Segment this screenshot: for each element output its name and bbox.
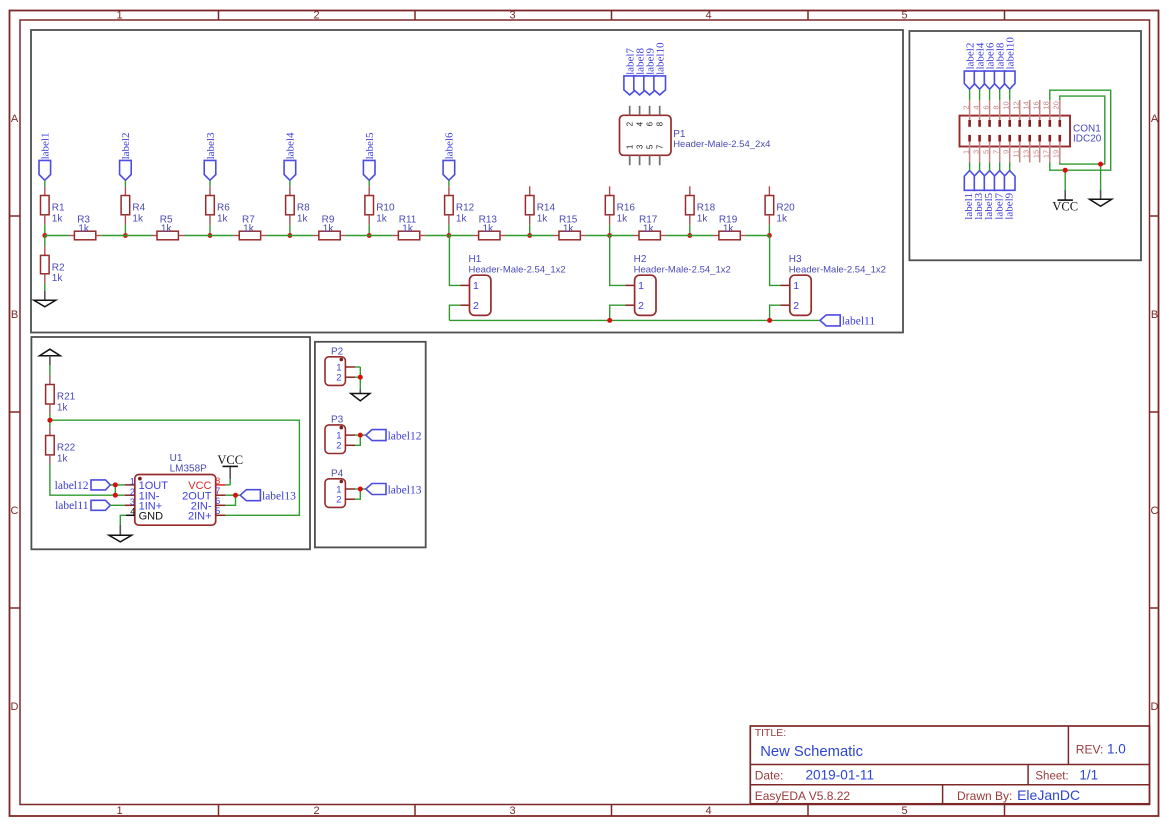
svg-text:R1: R1 (52, 202, 65, 213)
wire (530, 235, 554, 237)
wire (184, 235, 210, 237)
svg-text:New Schematic: New Schematic (760, 744, 863, 760)
net label flag label7 (CON1 bottom) (993, 171, 1005, 220)
wire VCC loop (pin18 to pin17) (1050, 90, 1111, 170)
svg-text:label9: label9 (1003, 192, 1015, 219)
wire (506, 235, 530, 237)
svg-text:17: 17 (1042, 150, 1051, 158)
wire (690, 235, 714, 237)
wire (114, 485, 116, 495)
pin stub R18 top (689, 186, 691, 195)
wire (266, 235, 290, 237)
svg-text:4: 4 (705, 805, 711, 817)
svg-text:label4: label4 (285, 132, 297, 159)
wire (44, 236, 46, 247)
junction CON1 VCC tap (1063, 168, 1068, 173)
wire (369, 235, 393, 237)
wire H3 pin2 down (770, 305, 781, 320)
resistor R1 (41, 186, 66, 225)
svg-text:LM358P: LM358P (170, 463, 208, 474)
wire (209, 225, 211, 236)
wire (355, 489, 360, 499)
svg-text:1k: 1k (217, 213, 229, 224)
CON1 pins bottom (970, 135, 1060, 163)
svg-text:3: 3 (509, 9, 515, 21)
svg-text:14: 14 (1021, 101, 1030, 109)
svg-text:2: 2 (313, 805, 319, 817)
svg-text:R10: R10 (376, 202, 395, 213)
resistor R19 (713, 215, 745, 240)
svg-text:A: A (1151, 113, 1159, 125)
svg-text:1k: 1k (52, 213, 64, 224)
wire (110, 484, 125, 486)
svg-text:1k: 1k (297, 213, 309, 224)
power flag VCC (op-amp) (217, 453, 243, 485)
svg-text:2: 2 (793, 300, 799, 312)
frame row ticks right (1150, 216, 1160, 608)
svg-text:1k: 1k (776, 213, 788, 224)
svg-text:C: C (1151, 505, 1159, 517)
svg-text:TITLE:: TITLE: (755, 727, 787, 739)
resistor R3 (69, 215, 101, 240)
wire (1009, 163, 1011, 171)
svg-text:Date:: Date: (755, 769, 784, 783)
svg-text:5: 5 (215, 506, 220, 516)
net label flag label1 (39, 133, 52, 181)
junction col 10 (767, 233, 772, 238)
svg-text:3: 3 (130, 497, 135, 507)
wire (768, 225, 770, 236)
svg-text:9: 9 (1001, 150, 1010, 154)
junction H3 bottom (767, 318, 772, 323)
svg-text:2: 2 (961, 105, 970, 109)
svg-text:1k: 1k (57, 454, 69, 465)
wire (44, 225, 46, 236)
title block table (750, 726, 1149, 804)
wire (368, 225, 370, 236)
wire (124, 225, 126, 236)
wire H2 pin2 down (610, 305, 626, 320)
svg-text:1k: 1k (402, 223, 414, 234)
wire (115, 494, 125, 496)
svg-text:label12: label12 (55, 480, 89, 492)
resistor R18 (686, 196, 716, 225)
svg-text:2019-01-11: 2019-01-11 (806, 768, 875, 783)
svg-text:REV:: REV: (1076, 743, 1104, 757)
svg-text:6: 6 (646, 121, 655, 126)
svg-text:1: 1 (116, 805, 122, 817)
svg-text:3: 3 (509, 805, 515, 817)
junction col 7 (527, 233, 532, 238)
ground symbol (op-amp) (109, 525, 132, 542)
junction 1IN- (113, 493, 118, 498)
svg-text:label5: label5 (364, 132, 376, 159)
svg-text:1k: 1k (723, 223, 735, 234)
power flag arrow (top) (40, 349, 61, 365)
svg-text:Header-Male-2.54_2x4: Header-Male-2.54_2x4 (673, 139, 770, 150)
svg-text:1k: 1k (243, 223, 255, 234)
svg-text:7: 7 (656, 144, 665, 149)
wire (989, 163, 991, 171)
P2-P4 block border (315, 342, 426, 548)
wire R22 to 1IN- (50, 464, 115, 495)
svg-text:20: 20 (1052, 101, 1061, 109)
svg-text:R20: R20 (776, 202, 795, 213)
wire (49, 365, 51, 376)
wire (44, 180, 46, 186)
svg-text:R14: R14 (537, 202, 556, 213)
resistor R16 (605, 196, 635, 225)
ground symbol (CON1) (1090, 190, 1112, 206)
svg-text:2: 2 (336, 373, 341, 384)
wire H2 pin1 to bus (610, 236, 626, 286)
svg-text:label11: label11 (842, 316, 876, 328)
net label flag label2 (CON1 top) (964, 43, 976, 90)
wire (44, 284, 46, 292)
frame column numbers bottom (116, 805, 907, 817)
wire (355, 435, 360, 445)
svg-text:1k: 1k (52, 273, 64, 284)
svg-text:1/1: 1/1 (1079, 768, 1098, 783)
wire (969, 163, 971, 171)
wire (1100, 164, 1102, 190)
wire (110, 504, 125, 506)
svg-text:1k: 1k (697, 213, 709, 224)
wire (368, 180, 370, 186)
svg-text:1: 1 (961, 150, 970, 154)
svg-text:label11: label11 (55, 500, 89, 512)
svg-text:D: D (11, 701, 19, 713)
op-amp U1 LM358P (125, 453, 226, 525)
wire (225, 494, 235, 496)
svg-text:Sheet:: Sheet: (1035, 771, 1068, 783)
svg-text:2: 2 (130, 487, 135, 497)
svg-text:1k: 1k (376, 213, 388, 224)
wire (1009, 89, 1011, 100)
svg-text:1: 1 (116, 9, 122, 21)
wire (979, 163, 981, 171)
frame row letters right (1151, 113, 1159, 713)
net label flag label6 (CON1 top) (984, 42, 996, 89)
resistor R7 (234, 215, 266, 240)
junction P3 (358, 433, 363, 438)
resistor R15 (553, 215, 585, 240)
svg-text:R12: R12 (456, 202, 475, 213)
svg-text:4: 4 (971, 105, 980, 109)
svg-text:1k: 1k (57, 402, 69, 413)
wire (969, 89, 971, 100)
CON1 block border (909, 31, 1141, 260)
net label flag label3 (204, 132, 217, 180)
wire (355, 488, 360, 490)
svg-text:5: 5 (901, 805, 907, 817)
junction CON1 GND tap (1098, 162, 1103, 167)
resistor R22 (46, 420, 76, 464)
wire (101, 235, 125, 237)
svg-text:label13: label13 (388, 484, 422, 496)
junction P2 (358, 375, 363, 380)
junction col 8 (607, 233, 612, 238)
wire (49, 414, 51, 421)
resistor R12 (445, 186, 475, 225)
connector P4 1x2 (325, 469, 355, 508)
wire (209, 180, 211, 186)
svg-text:5: 5 (901, 9, 907, 21)
resistor R6 (206, 186, 231, 225)
frame column numbers top (116, 9, 907, 21)
wire (225, 484, 230, 486)
svg-text:label12: label12 (388, 430, 422, 442)
wire (425, 235, 449, 237)
svg-text:5: 5 (646, 144, 655, 149)
svg-text:1k: 1k (78, 223, 90, 234)
wire (449, 235, 473, 237)
svg-text:C: C (11, 505, 19, 517)
wire (359, 377, 361, 389)
op-amp block border (31, 337, 310, 549)
wire H1 pin1 to bus (449, 236, 460, 286)
svg-text:EasyEDA V5.8.22: EasyEDA V5.8.22 (755, 789, 851, 803)
net label flag label2 (120, 133, 133, 181)
svg-text:12: 12 (1011, 101, 1020, 109)
net label flag label9 (644, 48, 657, 95)
net label flag label11 (main block) (820, 315, 875, 328)
wire GND loop (pin20 to pin19) (1060, 96, 1105, 164)
svg-text:VCC: VCC (217, 453, 243, 467)
svg-text:2: 2 (473, 300, 479, 312)
svg-text:R6: R6 (217, 202, 230, 213)
svg-text:6: 6 (981, 105, 990, 109)
svg-text:1k: 1k (161, 223, 173, 234)
junction col 2 (123, 233, 128, 238)
wire (666, 235, 690, 237)
wire GND pin4 (120, 515, 126, 525)
svg-text:3: 3 (636, 144, 645, 149)
resistor R21 (46, 376, 76, 414)
frame column ticks top (219, 11, 1005, 21)
svg-text:19: 19 (1052, 150, 1061, 158)
junction col 4 (288, 233, 293, 238)
CON1 pin numbers top (961, 101, 1060, 109)
svg-text:1: 1 (793, 280, 799, 292)
ground symbol (R2) (34, 291, 56, 307)
connector P2 1x2 (325, 347, 355, 386)
svg-text:5: 5 (981, 150, 990, 154)
svg-text:1: 1 (130, 477, 135, 487)
wire (45, 235, 69, 237)
svg-text:4: 4 (705, 9, 711, 21)
svg-text:8: 8 (656, 121, 665, 126)
svg-text:label10: label10 (1005, 37, 1017, 70)
svg-text:1k: 1k (456, 213, 468, 224)
svg-text:4: 4 (130, 507, 135, 517)
svg-text:A: A (11, 113, 19, 125)
wire (989, 89, 991, 100)
pin stub R16 top (609, 186, 611, 195)
wire (610, 235, 634, 237)
bottom net wire (449, 319, 820, 321)
svg-text:label1: label1 (40, 133, 52, 160)
svg-text:13: 13 (1021, 150, 1030, 158)
wire (448, 180, 450, 186)
svg-text:label3: label3 (205, 132, 217, 159)
CON1 pin numbers bottom (961, 150, 1060, 158)
wire (999, 89, 1001, 100)
svg-text:Header-Male-2.54_1x2: Header-Male-2.54_1x2 (469, 264, 566, 275)
svg-text:8: 8 (991, 105, 1000, 109)
svg-text:Header-Male-2.54_1x2: Header-Male-2.54_1x2 (634, 264, 731, 275)
wire (689, 225, 691, 236)
svg-text:P2: P2 (331, 347, 344, 358)
svg-text:label6: label6 (444, 132, 456, 159)
wire (125, 235, 151, 237)
wire (290, 235, 313, 237)
svg-text:D: D (1151, 701, 1159, 713)
wire (355, 367, 360, 377)
net label flag label13 (op-amp) (240, 490, 296, 503)
svg-text:4: 4 (636, 121, 645, 126)
net label flag label3 (CON1 bottom) (973, 171, 985, 220)
svg-text:11: 11 (1011, 150, 1020, 158)
junction col 3 (208, 233, 213, 238)
junction col 5 (367, 233, 372, 238)
svg-text:B: B (11, 309, 18, 321)
connector CON1 IDC20 body (960, 116, 1071, 147)
wire (355, 434, 360, 436)
junction col 9 (687, 233, 692, 238)
junction H2 bottom (607, 318, 612, 323)
svg-text:R4: R4 (132, 202, 145, 213)
wire (609, 225, 611, 236)
svg-text:R16: R16 (617, 202, 636, 213)
svg-text:1.0: 1.0 (1107, 742, 1126, 757)
wire (979, 89, 981, 100)
frame row ticks left (10, 216, 21, 608)
junction P4 (358, 487, 363, 492)
svg-text:10: 10 (1001, 101, 1010, 109)
wire (999, 163, 1001, 171)
main schematic block border (31, 30, 903, 333)
wire (355, 366, 360, 368)
junction col 1 (42, 233, 47, 238)
resistor R13 (473, 215, 505, 240)
svg-text:2: 2 (336, 495, 341, 506)
svg-text:1: 1 (626, 144, 635, 149)
svg-text:7: 7 (215, 486, 220, 496)
svg-text:Header-Male-2.54_1x2: Header-Male-2.54_1x2 (789, 264, 886, 275)
wire H3 pin1 to bus (770, 236, 781, 286)
svg-text:R18: R18 (697, 202, 716, 213)
net label flag label6 (443, 132, 456, 180)
connector H2 Header-Male-2.54_1x2 (625, 254, 731, 315)
wire (529, 225, 531, 236)
wire 2IN- loop (225, 495, 235, 505)
svg-text:8: 8 (215, 476, 220, 486)
junction R21/R22 (47, 418, 52, 423)
net label flag label5 (CON1 bottom) (983, 171, 995, 220)
svg-text:1k: 1k (643, 223, 655, 234)
pin stub R14 top (529, 186, 531, 195)
frame row letters left (11, 113, 19, 713)
svg-text:R21: R21 (57, 392, 76, 403)
wire (210, 235, 234, 237)
svg-text:VCC: VCC (1052, 200, 1078, 214)
svg-text:P4: P4 (331, 469, 344, 480)
resistor R9 (313, 215, 345, 240)
resistor R11 (393, 215, 425, 240)
wire (289, 225, 291, 236)
resistor R17 (634, 215, 666, 240)
CON1 reference text (1073, 124, 1102, 145)
pin stub R20 top (768, 186, 770, 195)
svg-text:3: 3 (971, 150, 980, 154)
svg-text:1k: 1k (563, 223, 575, 234)
resistor R8 (286, 186, 311, 225)
net label flag label8 (634, 48, 647, 95)
net label flag label7 (624, 48, 637, 95)
CON1 pins top (970, 100, 1060, 127)
resistor R5 (152, 215, 184, 240)
resistor R10 (365, 186, 395, 225)
svg-text:R2: R2 (52, 262, 65, 273)
resistor R14 (525, 196, 555, 225)
svg-text:16: 16 (1031, 101, 1040, 109)
connector H3 Header-Male-2.54_1x2 (780, 254, 886, 315)
net label flag label11 (op-amp) (55, 500, 110, 512)
svg-text:1: 1 (638, 280, 644, 292)
net label flag label10 (654, 42, 667, 95)
wire (289, 180, 291, 186)
wire (236, 494, 241, 496)
svg-text:15: 15 (1031, 150, 1040, 158)
power flag VCC (CON1) (1052, 190, 1078, 214)
svg-text:7: 7 (991, 150, 1000, 154)
svg-text:18: 18 (1042, 101, 1051, 109)
net label flag label12 (op-amp) (55, 480, 111, 492)
connector P3 1x2 (325, 415, 355, 454)
svg-text:1: 1 (473, 280, 479, 292)
ground symbol (P2) (351, 390, 370, 401)
resistor R2 (41, 246, 66, 284)
svg-text:2: 2 (313, 9, 319, 21)
svg-text:2IN+: 2IN+ (188, 511, 212, 523)
wire (124, 180, 126, 186)
svg-text:R22: R22 (57, 443, 76, 454)
net label flag label9 (CON1 bottom) (1003, 171, 1015, 220)
svg-text:6: 6 (215, 496, 220, 506)
frame column ticks bottom (219, 805, 1005, 817)
wire (346, 235, 369, 237)
net label flag label5 (363, 132, 376, 180)
svg-text:label10: label10 (655, 42, 667, 75)
net label flag label10 (CON1 top) (1004, 37, 1016, 90)
svg-text:label13: label13 (262, 491, 296, 503)
svg-text:1k: 1k (132, 213, 144, 224)
svg-text:1k: 1k (537, 213, 549, 224)
wire H1 pin2 down (449, 305, 460, 320)
svg-text:1k: 1k (323, 223, 335, 234)
svg-text:B: B (1151, 309, 1158, 321)
wire (448, 225, 450, 236)
svg-text:R8: R8 (297, 202, 310, 213)
svg-text:label2: label2 (120, 133, 132, 160)
wire feedback loop to 2IN+ (50, 420, 300, 515)
wire (746, 235, 770, 237)
net label flag label1 (CON1 bottom) (963, 171, 975, 220)
svg-text:2: 2 (638, 300, 644, 312)
svg-text:GND: GND (139, 511, 164, 523)
connector H1 Header-Male-2.54_1x2 (460, 254, 565, 315)
